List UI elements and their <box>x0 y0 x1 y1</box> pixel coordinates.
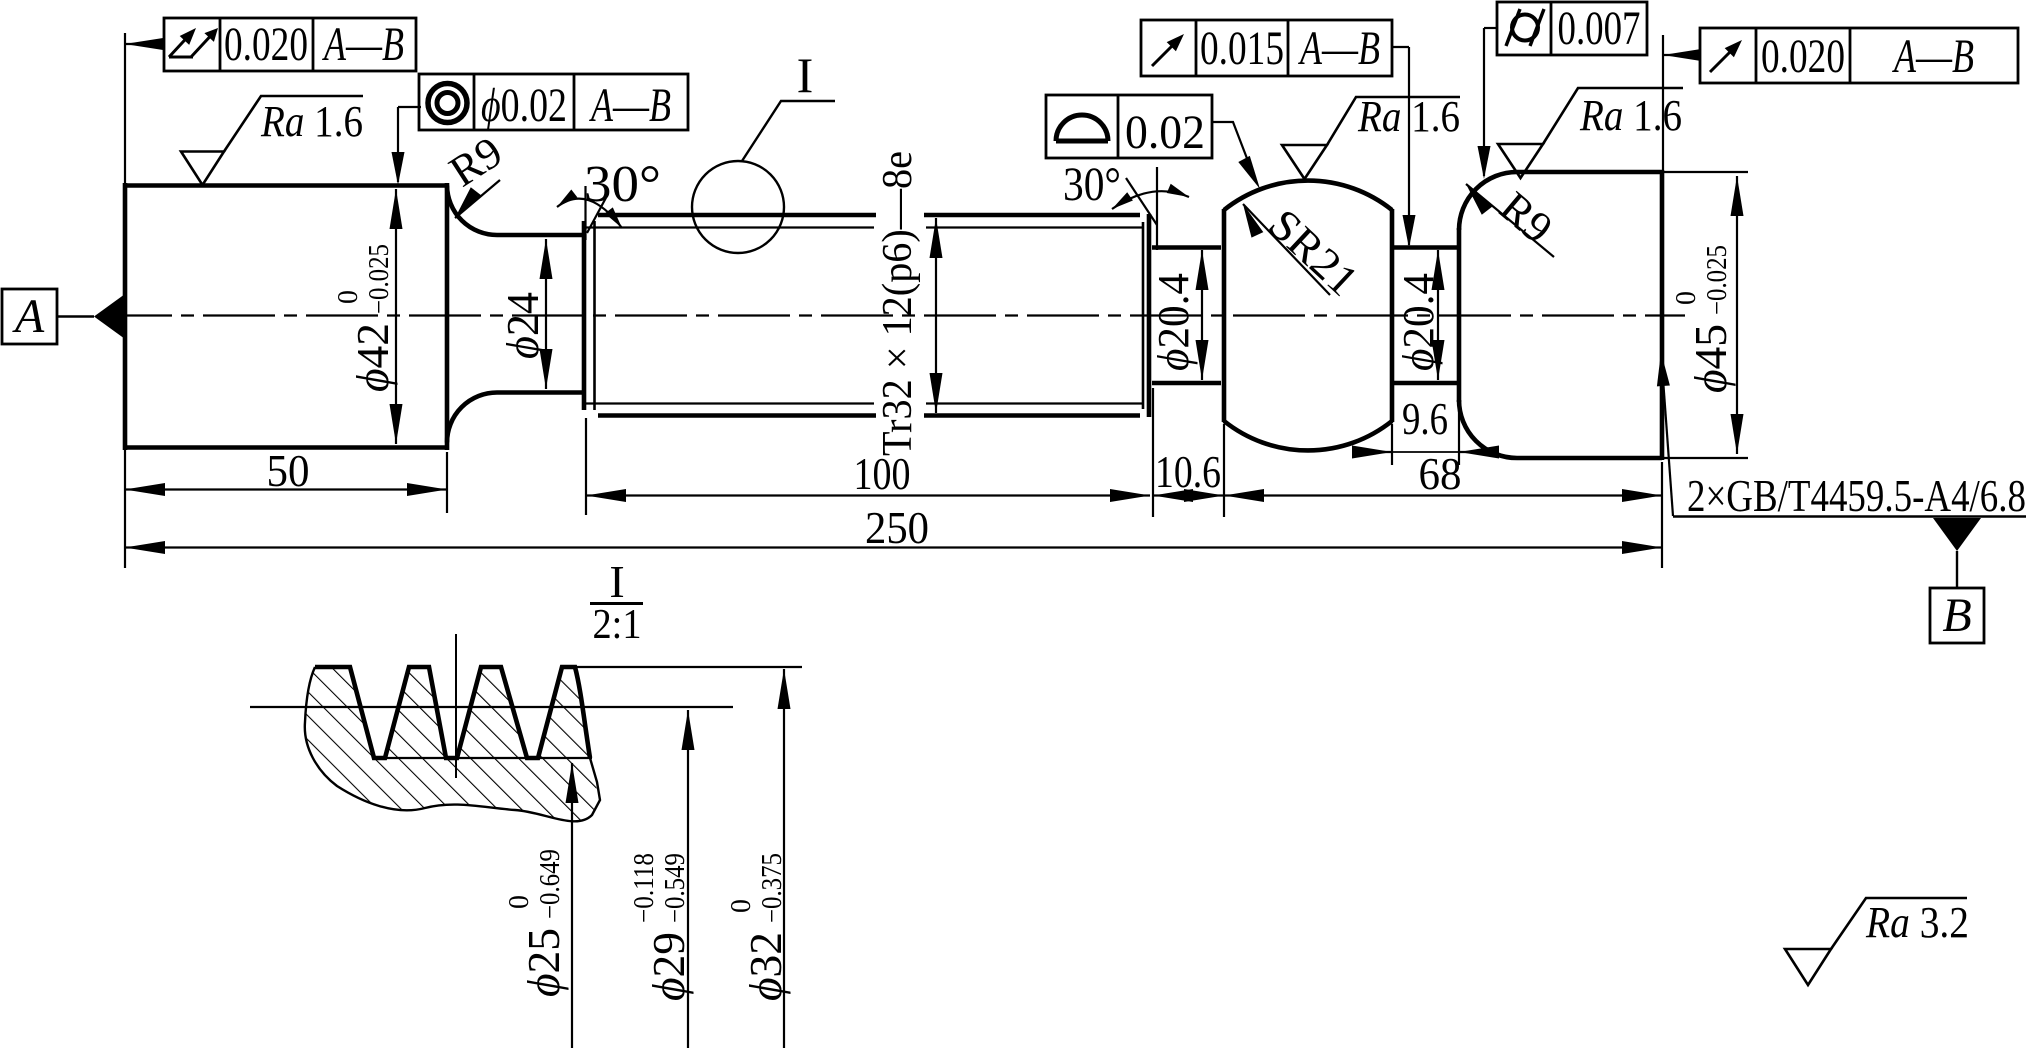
svg-text:B: B <box>1942 589 1971 642</box>
svg-text:A—B: A—B <box>1892 30 1974 83</box>
svg-text:Ra 3.2: Ra 3.2 <box>1865 898 1969 947</box>
leader concentricity to phi42 surface <box>398 106 421 108</box>
svg-text:0.020: 0.020 <box>1761 30 1845 83</box>
svg-text:A: A <box>12 290 45 343</box>
svg-text:0: 0 <box>726 899 757 913</box>
sphere SR21 top arc <box>1224 181 1392 210</box>
surface roughness Ra 1.6 on phi45 <box>1498 144 1543 178</box>
detail I leader <box>742 101 835 161</box>
circular runout symbol right <box>1710 48 1734 72</box>
neck phi20.4 first outline <box>1152 248 1221 384</box>
datum B symbol <box>1933 518 1981 551</box>
extension line 9.6 right <box>1458 404 1460 465</box>
surface roughness Ra 3.2 general <box>1785 949 1831 985</box>
svg-text:−0.025: −0.025 <box>1702 245 1733 315</box>
detail centerline <box>455 634 457 778</box>
leader 0.015 to second neck <box>1392 46 1409 48</box>
svg-text:Tr32 × 12(p6)—8e: Tr32 × 12(p6)—8e <box>875 151 921 456</box>
dimension line thread major diameter <box>935 218 937 413</box>
svg-text:A—B: A—B <box>322 18 404 71</box>
svg-text:50: 50 <box>267 445 310 496</box>
svg-text:ϕ20.4: ϕ20.4 <box>1394 273 1443 371</box>
svg-text:−0.549: −0.549 <box>660 853 691 923</box>
svg-text:2×GB/T4459.5-A4/6.8: 2×GB/T4459.5-A4/6.8 <box>1687 470 2026 521</box>
svg-text:ϕ20.4: ϕ20.4 <box>1149 273 1198 371</box>
thread minor diameter lines <box>586 228 1143 404</box>
svg-text:9.6: 9.6 <box>1402 393 1448 444</box>
svg-text:A—B: A—B <box>589 79 671 132</box>
R9 corner bottom right section <box>1459 400 1517 458</box>
svg-text:ϕ0.02: ϕ0.02 <box>481 79 567 132</box>
extension line right end upper <box>1662 35 1664 170</box>
extension line 9.6 left <box>1391 424 1393 465</box>
dimension phi20.4 first neck <box>1201 250 1203 380</box>
svg-text:Ra 1.6: Ra 1.6 <box>1579 91 1682 140</box>
extension line phi45 bottom <box>1664 457 1748 459</box>
shaft left section phi42 outline <box>125 183 447 450</box>
svg-text:2:1: 2:1 <box>593 602 642 648</box>
feature control frame circular runout 0.015 A-B <box>1141 20 1392 76</box>
dimension phi20.4 second neck <box>1437 250 1439 380</box>
dimension phi24 <box>545 239 547 389</box>
total runout symbol <box>169 56 193 59</box>
thread start chamfer edge <box>593 221 596 410</box>
datum A symbol <box>2 289 57 344</box>
dimension phi32 with tolerance <box>783 669 785 1048</box>
detail pitch line <box>250 706 733 708</box>
thread end chamfer edge <box>1142 222 1145 409</box>
SR21 sphere label <box>1243 204 1263 238</box>
extension line 10.6 right sphere left <box>1223 424 1225 517</box>
svg-text:I: I <box>609 556 624 607</box>
main centerline <box>100 314 1685 316</box>
surface roughness Ra 1.6 on phi42 <box>181 152 224 186</box>
detail thread profile outline <box>315 667 590 758</box>
detail crest line <box>575 666 802 668</box>
dimension phi25 with tolerance <box>571 763 573 1048</box>
svg-text:0.015: 0.015 <box>1200 22 1284 75</box>
svg-text:A—B: A—B <box>1298 22 1380 75</box>
R9 fillet label left <box>455 187 481 218</box>
svg-text:−0.649: −0.649 <box>535 849 566 919</box>
svg-text:ϕ29: ϕ29 <box>643 932 694 1001</box>
leader 0.02 to sphere <box>1212 122 1253 174</box>
neck phi24 outline <box>497 235 584 393</box>
fillet R9 bottom left <box>447 393 497 443</box>
neck phi20.4 second outline <box>1392 248 1459 384</box>
dimension phi45 with tolerance <box>1736 176 1738 454</box>
feature control frame circular runout 0.020 A-B right <box>1700 28 2018 83</box>
svg-text:68: 68 <box>1419 448 1462 499</box>
sphere SR21 right face <box>1390 209 1395 422</box>
R9 corner top right section <box>1459 172 1517 230</box>
svg-text:I: I <box>797 47 814 103</box>
sphere SR21 left face <box>1222 209 1227 422</box>
detail break line blob <box>305 667 600 821</box>
sphere SR21 bottom arc <box>1224 421 1392 450</box>
feature control frame total runout 0.020 A-B <box>164 18 416 71</box>
extension line 10.6 left <box>1152 388 1154 517</box>
extension line right end lower <box>1661 462 1663 568</box>
leader total runout to left extension <box>125 38 163 50</box>
dimension 9.6 <box>1352 451 1392 453</box>
svg-text:−0.375: −0.375 <box>757 853 788 923</box>
svg-text:ϕ24: ϕ24 <box>497 292 548 359</box>
dimension phi42 with tolerance <box>395 189 397 444</box>
svg-text:0.007: 0.007 <box>1558 2 1641 55</box>
svg-text:0.02: 0.02 <box>1125 106 1205 159</box>
detail I circle on thread <box>692 161 784 253</box>
leader 0.007 to right section corner <box>1484 27 1497 29</box>
right end face <box>1660 170 1665 460</box>
svg-text:30°: 30° <box>584 156 661 213</box>
svg-text:Ra 1.6: Ra 1.6 <box>1357 92 1460 141</box>
feature control frame cylindricity 0.007 <box>1497 2 1647 55</box>
leader 0.020 to right end extension <box>1663 54 1700 56</box>
extension line phi45 top <box>1664 171 1748 173</box>
svg-text:−0.025: −0.025 <box>364 244 395 314</box>
svg-text:0.020: 0.020 <box>224 18 308 71</box>
extension line left end <box>124 33 126 568</box>
svg-text:0: 0 <box>1671 291 1702 305</box>
svg-text:ϕ32: ϕ32 <box>740 932 791 1001</box>
feature control frame concentricity phi0.02 A-B <box>419 74 688 130</box>
svg-text:Ra 1.6: Ra 1.6 <box>260 97 363 146</box>
svg-text:250: 250 <box>865 502 929 553</box>
feature control frame profile 0.02 <box>1046 95 1212 158</box>
profile of surface symbol <box>1056 115 1108 141</box>
detail root line <box>374 757 592 759</box>
right section phi45 left face <box>1457 228 1462 402</box>
svg-text:0: 0 <box>333 290 364 304</box>
circular runout symbol <box>1152 42 1176 66</box>
right section phi45 outline <box>1517 172 1662 458</box>
dimension 68 <box>1224 494 1662 496</box>
extension line phi42 right <box>446 452 448 513</box>
extension line thread start <box>585 418 587 515</box>
dimension 10.6 <box>1153 489 1193 502</box>
svg-text:ϕ45: ϕ45 <box>1685 324 1736 393</box>
thread major diameter lines <box>598 215 1140 416</box>
svg-text:ϕ25: ϕ25 <box>518 928 569 997</box>
dimension phi29 with tolerance <box>687 710 689 1048</box>
concentricity symbol <box>428 84 467 123</box>
thread end face <box>1147 214 1152 417</box>
svg-text:−0.118: −0.118 <box>629 853 660 923</box>
svg-text:0: 0 <box>504 895 535 909</box>
svg-text:30°: 30° <box>1063 158 1121 211</box>
svg-text:ϕ42: ϕ42 <box>347 323 398 392</box>
thread designation Tr32x12(p6)-8e <box>875 151 921 456</box>
dimension 250 <box>125 546 1662 548</box>
surface roughness Ra 1.6 on sphere <box>1282 145 1327 179</box>
svg-text:10.6: 10.6 <box>1155 446 1221 497</box>
thread start face <box>582 221 587 410</box>
detail thread profile hatched section <box>305 667 597 821</box>
fillet R9 top left <box>447 186 497 236</box>
dimension 100 <box>586 494 1150 496</box>
R9 corner label right <box>1466 184 1492 215</box>
dimension 50 <box>125 488 447 490</box>
cylindricity symbol <box>1512 15 1538 41</box>
